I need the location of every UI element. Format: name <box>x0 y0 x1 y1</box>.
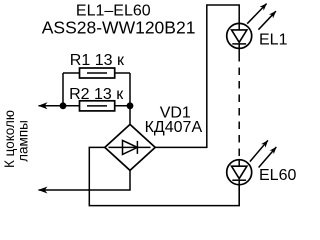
svg-text:К цоколюлампы: К цоколюлампы <box>2 110 30 168</box>
svg-text:EL1: EL1 <box>259 32 288 49</box>
svg-text:ASS28-WW120B21: ASS28-WW120B21 <box>42 18 196 38</box>
svg-text:R2 13 к: R2 13 к <box>69 86 124 103</box>
svg-text:R1 13 к: R1 13 к <box>70 52 125 69</box>
svg-text:КД407А: КД407А <box>145 119 203 136</box>
svg-text:EL60: EL60 <box>259 167 296 184</box>
